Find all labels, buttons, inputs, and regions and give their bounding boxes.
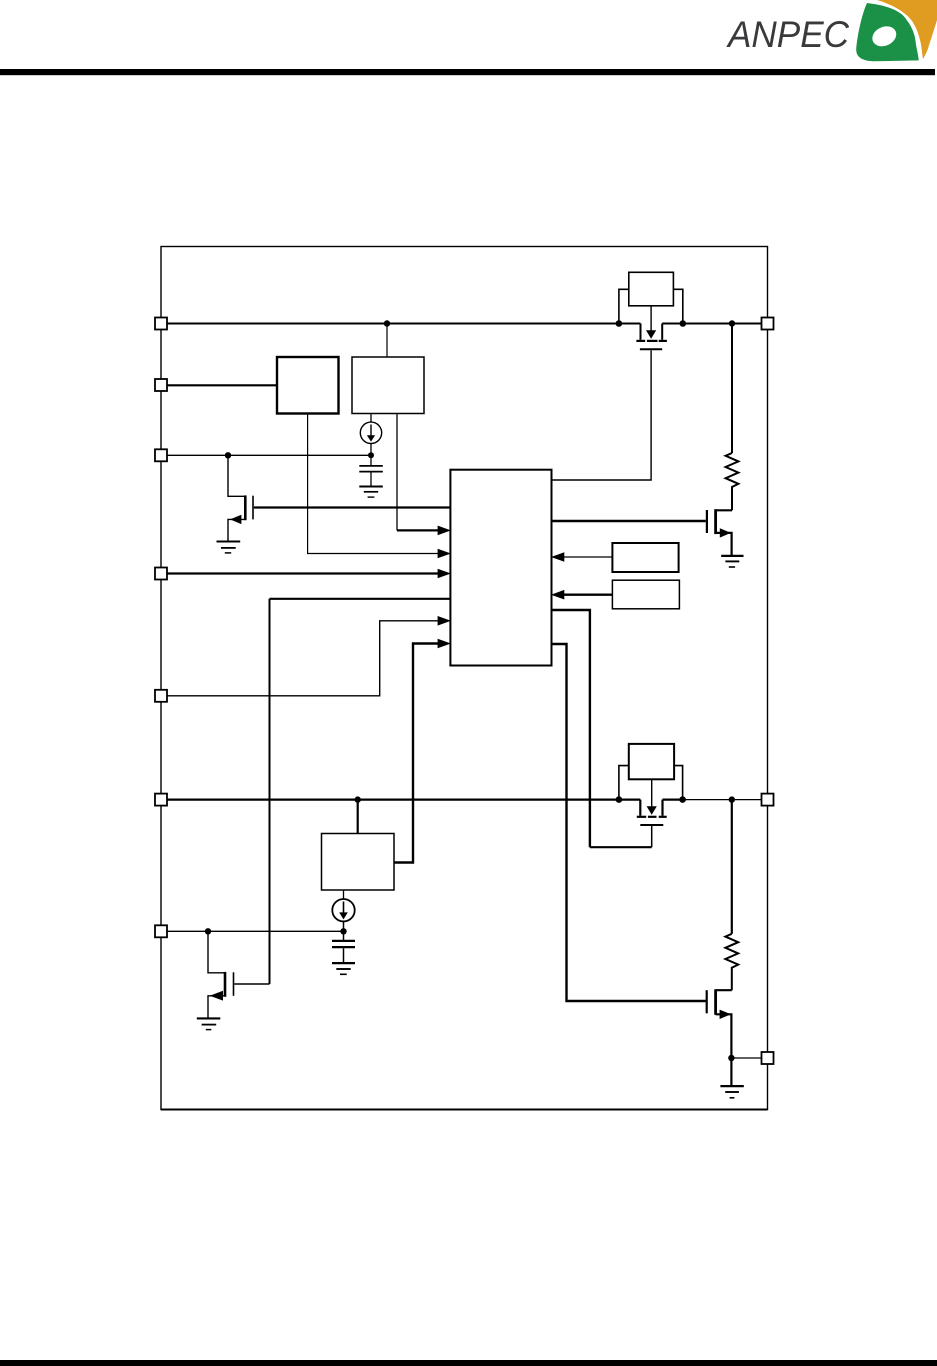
wire: block A bottom lead into U1 <box>308 414 440 554</box>
transistor Q3 source with arrow <box>716 533 732 556</box>
wire: U1 to Q6 gate (long vertical) <box>552 644 706 1001</box>
svg-text:ANPEC: ANPEC <box>726 13 850 55</box>
wire: block B bottom lead into current source I1 <box>370 414 372 423</box>
resistor R1 <box>731 324 733 454</box>
capacitor C2 <box>332 940 355 942</box>
junction node: Q1 drain <box>680 320 687 327</box>
transistor Q4 gate bar <box>640 824 663 826</box>
current source I1 <box>360 422 381 443</box>
pin P4 (left) <box>155 568 167 580</box>
arrowhead: pin5 line into U1 <box>438 616 451 626</box>
wire: block B top lead to VIN rail <box>386 324 388 358</box>
transistor Q2 source with arrow <box>228 519 245 541</box>
block B (reference / bias) <box>352 357 424 414</box>
junction node: R2 top <box>729 796 735 802</box>
ground (Q5) <box>197 1017 221 1019</box>
wire: Q6 source to ground <box>730 1058 732 1086</box>
transistor Q1 (top pass PMOS) body arrow <box>650 306 652 331</box>
wire: pin3 line to C1 node <box>167 454 371 456</box>
wire: pin5 line up into U1 <box>167 621 440 696</box>
wire: block C right lead up into U1 <box>394 644 440 863</box>
transistor Q2 gate bar <box>252 496 254 520</box>
transistor Q4 source/drain drops <box>639 800 641 816</box>
IC boundary bottom edge (heavier) <box>161 1109 768 1111</box>
ground (Q3) <box>721 555 743 557</box>
wire: EN line pin2 to block A <box>167 384 277 386</box>
wire: U1 to Q3 gate <box>552 520 706 522</box>
wire: mid rail right of Q4 <box>663 798 683 800</box>
footer rule (bottom) <box>0 1360 937 1366</box>
wire: block B right lead horizontal into U1 <box>397 529 440 531</box>
transistor Q6 source with arrow <box>716 1014 732 1058</box>
junction node: mid rail / Q4 source <box>616 796 623 803</box>
transistor Q1 gate bar <box>640 348 662 350</box>
junction node: R1 top <box>729 320 735 326</box>
wire: block G right stub to Q1 drain node <box>673 289 682 323</box>
transistor Q3 channel bar <box>714 509 717 534</box>
wire: Q5 gate lead <box>234 983 269 985</box>
transistor Q6 drain step <box>716 989 732 991</box>
transistor Q4 (bottom pass PMOS) body arrow <box>651 779 653 807</box>
current source I2 <box>332 899 354 921</box>
pin P5 (left) <box>155 690 167 702</box>
wire: VIN top rail right of Q1 <box>662 323 761 325</box>
pin P10 (right, GND) <box>762 1052 774 1064</box>
pin P6 (left, mid rail) <box>155 794 167 806</box>
wire: pin4 line into U1 <box>167 572 440 574</box>
pin P1 (left, VIN) <box>155 318 167 330</box>
wire: block C top lead to mid rail <box>357 800 359 834</box>
pin P3 (left, bypass) <box>155 449 167 461</box>
wire: I2 to C2 node <box>343 922 345 941</box>
transistor Q3 (top-right NMOS) gate bar <box>706 510 708 533</box>
wire: Q6 source to right pin <box>731 1057 761 1059</box>
transistor Q1 channel dashes <box>636 340 645 342</box>
ground (Q6) <box>720 1085 743 1087</box>
wire: I1 to C1 node <box>370 444 372 466</box>
wire: Q1 gate to U1 <box>552 350 652 480</box>
block D (bottom PMOS gate driver) <box>629 744 674 779</box>
transistor Q6 (bottom-right NMOS) gate bar <box>706 990 708 1013</box>
ANPEC logo mark <box>856 0 937 61</box>
ground (Q2) <box>217 540 241 542</box>
ground (C2) <box>332 962 355 964</box>
ground (C1) <box>359 486 383 488</box>
junction node: VIN / Q1 source <box>616 320 623 327</box>
transistor Q5 source with arrow <box>208 996 225 1019</box>
small block F (comparator 2) <box>612 580 679 609</box>
junction node: pin7 / C2 <box>340 928 346 934</box>
junction node: pin7 / Q5 drain <box>205 928 211 934</box>
arrowhead: block E output into U1 <box>551 552 564 562</box>
wire: block D right stub to Q4 drain node <box>674 766 683 800</box>
junction node: Q6 source / right pin <box>728 1055 734 1061</box>
junction node: VIN / block B <box>384 320 390 326</box>
pin P2 (left, EN) <box>155 379 167 391</box>
junction node: pin3 / Q2 drain <box>225 452 231 458</box>
wire: block C bottom lead into current source I2 <box>343 890 345 899</box>
transistor Q2 (top-left small NMOS) drain lead <box>228 455 245 496</box>
wire: U1 to bottom-left NMOS Q5 gate (long vertical) <box>270 598 451 600</box>
pin P9 (right, VOUT2) <box>762 794 774 806</box>
arrowhead: block F output into U1 <box>551 590 564 600</box>
junction node: Q4 drain <box>679 796 686 803</box>
junction node: pin3 / C1 <box>368 452 374 458</box>
pin P7 (left, bypass 2) <box>155 925 167 937</box>
IC boundary <box>161 247 768 1110</box>
wire: block D left stub to mid rail <box>619 766 629 800</box>
wire: mid rail thin segment to right pin <box>683 799 762 801</box>
transistor Q4 channel dashes <box>637 816 646 818</box>
wire: block F output into U1 <box>563 594 613 596</box>
capacitor C1 <box>359 465 383 467</box>
central control block U1 <box>450 470 551 666</box>
block C (bottom reference) <box>322 834 395 891</box>
wire: Q4 gate to U1 <box>651 826 653 847</box>
small block E (comparator 1) <box>612 543 678 572</box>
transistor Q2 channel bar <box>244 495 247 520</box>
transistor Q5 (bottom-left small NMOS) drain lead <box>208 931 225 973</box>
transistor Q5 gate bar <box>233 972 235 996</box>
wire: block B right lead into U1 <box>396 414 398 531</box>
arrowhead: pin4 line into U1 <box>438 569 451 579</box>
block A (enable logic) <box>277 357 339 414</box>
wire: block E output into U1 <box>563 556 613 558</box>
transistor Q6 channel bar <box>714 989 717 1015</box>
arrowhead: block A lead into U1 <box>438 549 451 559</box>
transistor Q5 channel bar <box>224 972 227 997</box>
wire: Q2 gate into U1 <box>254 506 451 508</box>
junction node: mid rail / block C <box>355 796 361 802</box>
arrowhead: block B lead into U1 <box>438 526 451 536</box>
resistor R2 <box>731 800 733 934</box>
transistor Q3 drain step <box>716 509 732 511</box>
wire: pin7 line to C2 node <box>167 930 344 932</box>
pin P8 (right, VOUT1) <box>762 318 774 330</box>
block G (top PMOS gate driver) <box>629 272 674 306</box>
wire: VIN top rail left segment <box>167 323 641 325</box>
wire: mid rail left segment <box>167 798 640 800</box>
arrowhead: block C lead into U1 <box>438 639 451 649</box>
header rule (top) <box>0 69 935 75</box>
transistor Q1 source/drain drops <box>640 324 642 340</box>
wire: block G left stub to VIN rail <box>619 289 629 323</box>
